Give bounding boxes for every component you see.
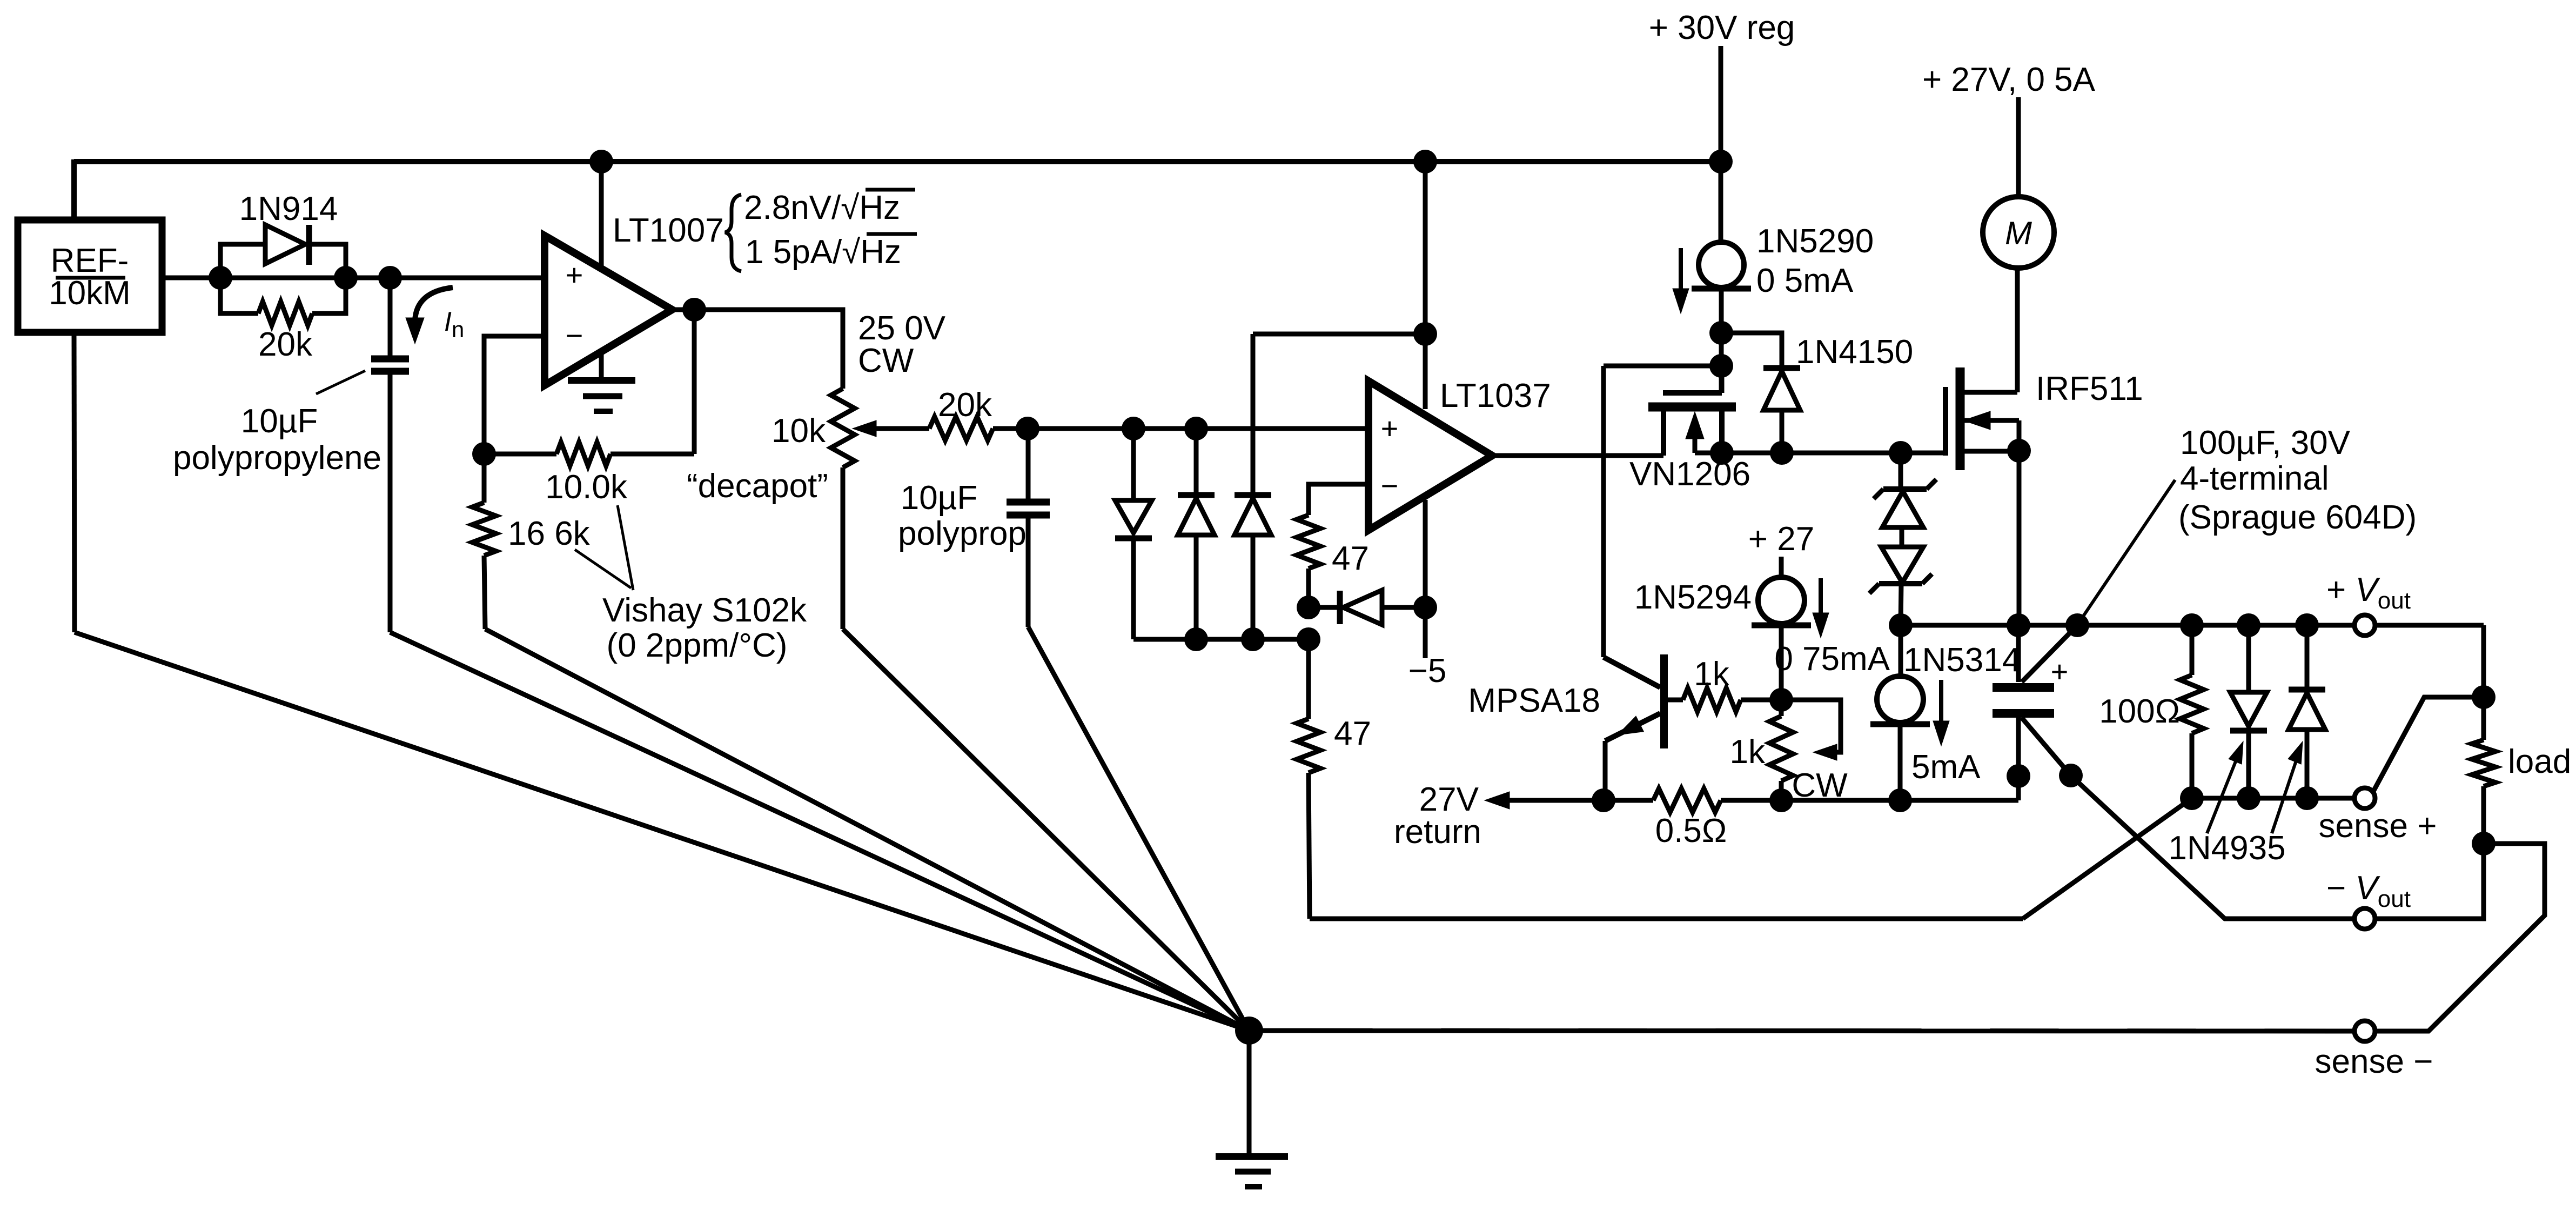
wire +V rail (1901, 623, 2354, 628)
wiper R9 (1781, 700, 1841, 752)
wire LT1037 inverting branch (1309, 484, 1369, 515)
wire return rail (1721, 798, 2018, 803)
wire minus rail diagonal to sense+ (2023, 798, 2192, 919)
arrow 1N5294 current (1819, 578, 1823, 613)
wire sense+ rail (2192, 796, 2354, 801)
capacitor C2 10uF polyprop (1026, 429, 1031, 499)
wire -Vout to load bottom (2376, 844, 2484, 919)
wire 20k branch (220, 278, 258, 313)
resistor R7 47 (1297, 719, 1320, 773)
svg-text:0 75mA: 0 75mA (1774, 640, 1890, 678)
svg-text:1N5294: 1N5294 (1634, 579, 1752, 616)
motor M1 (1983, 197, 2054, 268)
svg-text:20k: 20k (258, 326, 313, 363)
wire feedback from output (692, 310, 697, 454)
node gate/1N4150 branch (1709, 321, 1733, 345)
node capacitor C1 tap (378, 266, 402, 290)
svg-text:10kM: 10kM (49, 275, 131, 312)
svg-text:CW: CW (858, 342, 914, 379)
resistor R10 0.5 ohm (1653, 788, 1721, 812)
leader line C3 label (2081, 480, 2175, 619)
svg-text:VN1206: VN1206 (1629, 456, 1750, 493)
svg-text:+: + (1381, 411, 1399, 445)
svg-text:polypropylene: polypropylene (173, 439, 381, 477)
svg-text:47: 47 (1332, 540, 1369, 577)
svg-text:20k: 20k (938, 386, 992, 424)
node zener bottom / +V branch (1889, 613, 1913, 637)
wire source bus to IRF511 gate (1722, 451, 1946, 456)
diode D7 1N4150 (1721, 333, 1782, 367)
node R6 bottom (1297, 596, 1320, 619)
svg-text:Vishay S102k: Vishay S102k (602, 592, 807, 629)
wire LT1037 output (1492, 453, 1663, 458)
svg-text:+ 30V reg: + 30V reg (1649, 9, 1795, 46)
node load bottom (2472, 832, 2496, 855)
node C3 positive sense (2065, 613, 2089, 637)
node load top (2472, 685, 2496, 709)
ground LT1007 (599, 350, 604, 380)
node D10 top (2237, 613, 2260, 637)
resistor R11 100 ohm (2190, 625, 2195, 675)
svg-text:25 0V: 25 0V (858, 310, 946, 347)
node LT1007 supply (589, 150, 613, 173)
resistor R1 20k (258, 302, 312, 325)
node pot bottom (1769, 788, 1793, 812)
svg-text:LT1037: LT1037 (1440, 377, 1551, 415)
diode D4 (1251, 334, 1256, 495)
current source D9 1N5294 (1779, 557, 1784, 577)
transistor Q2 IRF511 (1943, 390, 1948, 453)
svg-text:LT1007: LT1007 (613, 212, 724, 249)
wire load bottom to sense- (2376, 844, 2545, 1031)
REF-10kM reference U1 (18, 220, 162, 332)
wire gate net horizontal (1604, 364, 1721, 369)
diode D1 1N914 (265, 225, 305, 264)
svg-text:1N4935: 1N4935 (2168, 830, 2285, 867)
node -5 branch (1413, 322, 1437, 346)
wire LT1007 V+ supply (599, 162, 604, 270)
svg-text:(0 2ppm/°C): (0 2ppm/°C) (607, 627, 788, 664)
wire diode bottom rail (1133, 637, 1309, 642)
transistor Q1 VN1206 (1720, 366, 1725, 393)
wire D4 top to -5 line (1253, 332, 1425, 337)
resistor R3 16 6k (482, 454, 487, 503)
terminal sense- (2354, 1021, 2375, 1041)
wiper arrow R4 (853, 420, 876, 437)
wire C1 ground diagonal (390, 632, 1249, 1031)
svg-text:47: 47 (1334, 715, 1371, 752)
terminal -Vout (2354, 908, 2375, 929)
svg-text:1N4150: 1N4150 (1796, 333, 1913, 371)
wire to LT1037 + input (993, 426, 1369, 431)
svg-text:4-terminal: 4-terminal (2180, 460, 2329, 497)
svg-text:M: M (2005, 215, 2032, 251)
wire LT1037 supply from +30V (1423, 162, 1428, 409)
node MPSA18 emitter (1592, 788, 1615, 812)
node cap negative lead (2007, 764, 2030, 788)
node zener top (1889, 441, 1913, 465)
node base/pot junction (1769, 688, 1793, 712)
node rail to 47 ohm (1297, 627, 1320, 651)
node 100ohm top (2180, 613, 2204, 637)
node D4 bottom (1241, 627, 1265, 651)
diode D5 (1309, 605, 1340, 610)
node D11 top (2295, 613, 2319, 637)
svg-text:0.5Ω: 0.5Ω (1655, 812, 1727, 850)
svg-text:2.8nV/√Hz: 2.8nV/√Hz (744, 189, 900, 226)
node 5mA bottom (1888, 788, 1912, 812)
svg-text:+ 27V, 0 5A: + 27V, 0 5A (1922, 61, 2096, 98)
wire C2 ground diagonal (1028, 627, 1249, 1031)
svg-text:10.0k: 10.0k (545, 469, 628, 506)
wire C3 negative diagonal to -Vout (2071, 776, 2354, 919)
node +30V rail junction (1709, 150, 1733, 173)
node gate net join (1709, 354, 1733, 378)
node D10 bottom (2237, 786, 2260, 810)
wire REF output (162, 276, 545, 280)
diode D2 (1131, 429, 1136, 500)
svg-text:sense −: sense − (2315, 1043, 2433, 1080)
svg-text:27V: 27V (1419, 781, 1479, 818)
svg-text:polyprop: polyprop (898, 515, 1027, 552)
wire LT1007 inverting input (484, 336, 545, 454)
node 1N914/20k right (334, 266, 358, 290)
node C2 tap (1016, 417, 1039, 440)
wire +V rail to load (2376, 623, 2484, 628)
wire IRF511 source to output node (2017, 451, 2022, 625)
ground symbol (1247, 1031, 1252, 1156)
diode D3 (1194, 429, 1199, 495)
node 100ohm bottom (2180, 786, 2204, 810)
zener Z2 (1881, 547, 1923, 583)
wire R3 ground diagonal (485, 629, 1249, 1031)
svg-text:IRF511: IRF511 (2036, 370, 2143, 407)
wire sense+ to load top (2373, 697, 2484, 792)
terminal sense+ (2354, 788, 2375, 808)
wire +30V vertical (1719, 46, 1723, 243)
wire return rail to cap (2016, 776, 2021, 800)
wire REF box top lead (71, 159, 77, 222)
svg-text:REF-: REF- (51, 242, 129, 279)
resistor R6 47 (1297, 515, 1320, 569)
svg-text:+: + (566, 258, 583, 292)
diode D11 1N4935 (2305, 625, 2310, 690)
wire 1N5290 to gate node (1719, 289, 1724, 393)
svg-text:+ 27: + 27 (1748, 520, 1814, 558)
arrow 1N5290 current (1679, 248, 1683, 289)
wire R7 to minus-rail corner (1309, 773, 1310, 919)
svg-text:1N5314: 1N5314 (1903, 641, 2021, 679)
current source D8 1N5314 5mA (1899, 625, 1903, 676)
op-amp U2 LT1007 (545, 236, 672, 385)
svg-text:1N914: 1N914 (239, 190, 338, 228)
wire minus rail from R7 (1310, 917, 2023, 921)
node star ground junction (1235, 1017, 1263, 1045)
svg-text:1k: 1k (1730, 733, 1766, 771)
wire top +30V rail (74, 159, 1721, 164)
svg-text:16 6k: 16 6k (508, 515, 591, 552)
node REF output (209, 266, 232, 290)
potentiometer R4 10k decapot (831, 389, 855, 467)
op-amp U3 LT1037 (1369, 381, 1492, 530)
wire pot ground diagonal (843, 629, 1249, 1031)
svg-text:MPSA18: MPSA18 (1468, 682, 1600, 719)
wire 1N914 branch (220, 244, 265, 278)
resistor R2 10.0k (556, 442, 611, 466)
node D3 bottom (1184, 627, 1208, 651)
wire LT1007 output to pot (672, 310, 843, 389)
svg-text:1 5pA/√Hz: 1 5pA/√Hz (745, 233, 901, 271)
resistor R5 20k (929, 417, 993, 440)
node D5 anode junction (1413, 596, 1437, 619)
wire REF ground run (74, 332, 75, 632)
wire LT1037 negative supply -5 (1423, 500, 1428, 658)
zener Z1 (1899, 453, 1903, 489)
node diode D2 top (1122, 417, 1145, 440)
wire IRF511 drain to motor (2015, 269, 2020, 392)
arrow 27V return (1485, 792, 1510, 809)
current source D6 1N5290 (1699, 242, 1744, 288)
capacitor C1 10uF polypropylene (388, 278, 393, 356)
wire rail to R7 (1306, 639, 1311, 719)
svg-text:100µF, 30V: 100µF, 30V (2180, 424, 2351, 462)
capacitor C3 100uF 30V 4-terminal (2016, 625, 2021, 682)
resistor R8 1k base (1668, 698, 1683, 703)
node feedback junction (472, 442, 496, 466)
svg-text:1N5290: 1N5290 (1756, 223, 1874, 260)
node 1N4150 bottom (1770, 441, 1794, 465)
svg-text:−5: −5 (1408, 652, 1447, 690)
node C3 sense lead (2059, 764, 2083, 787)
svg-text:(Sprague 604D): (Sprague 604D) (2178, 499, 2417, 536)
leader arrows 1N4935 (2207, 748, 2241, 833)
svg-text:10µF: 10µF (241, 403, 318, 440)
potentiometer R9 1k (1779, 700, 1784, 716)
svg-text:0 5mA: 0 5mA (1756, 262, 1854, 299)
svg-text:1k: 1k (1694, 656, 1729, 693)
node IRF511 source join (2007, 613, 2030, 637)
diode D10 1N4935 (2246, 625, 2251, 692)
arrow 5mA current (1939, 680, 1943, 721)
wire REF ground diagonal (75, 632, 1249, 1031)
svg-text:5mA: 5mA (1911, 748, 1981, 786)
leader line C1 label (316, 371, 365, 394)
node D11 bottom (2295, 786, 2319, 810)
svg-text:100Ω: 100Ω (2099, 693, 2180, 730)
node LT1007 output (682, 298, 706, 322)
wire sense- rail (1249, 1031, 2354, 1031)
svg-text:10k: 10k (772, 412, 826, 450)
resistor R12 load (2481, 697, 2486, 740)
svg-text:−: − (1381, 469, 1399, 503)
wire VN1206 gate net vertical (1601, 366, 1606, 657)
transistor Q3 MPSA18 (1604, 657, 1660, 687)
terminal +Vout (2354, 615, 2375, 636)
node LT1037 supply on rail (1413, 150, 1437, 173)
wire motor supply (2016, 97, 2021, 197)
svg-text:return: return (1394, 813, 1481, 851)
svg-text:10µF: 10µF (901, 479, 978, 517)
svg-text:“decapot”: “decapot” (687, 467, 828, 505)
node diode D3 top (1184, 417, 1208, 440)
node IRF511 source (2007, 439, 2031, 463)
node VN1206 source (1710, 441, 1734, 465)
svg-text:sense +: sense + (2319, 807, 2437, 845)
svg-text:load: load (2508, 743, 2571, 780)
leader lines Vishay (618, 505, 633, 590)
current arrow In (415, 288, 453, 321)
svg-text:−: − (566, 318, 583, 352)
svg-text:+: + (2051, 654, 2069, 688)
